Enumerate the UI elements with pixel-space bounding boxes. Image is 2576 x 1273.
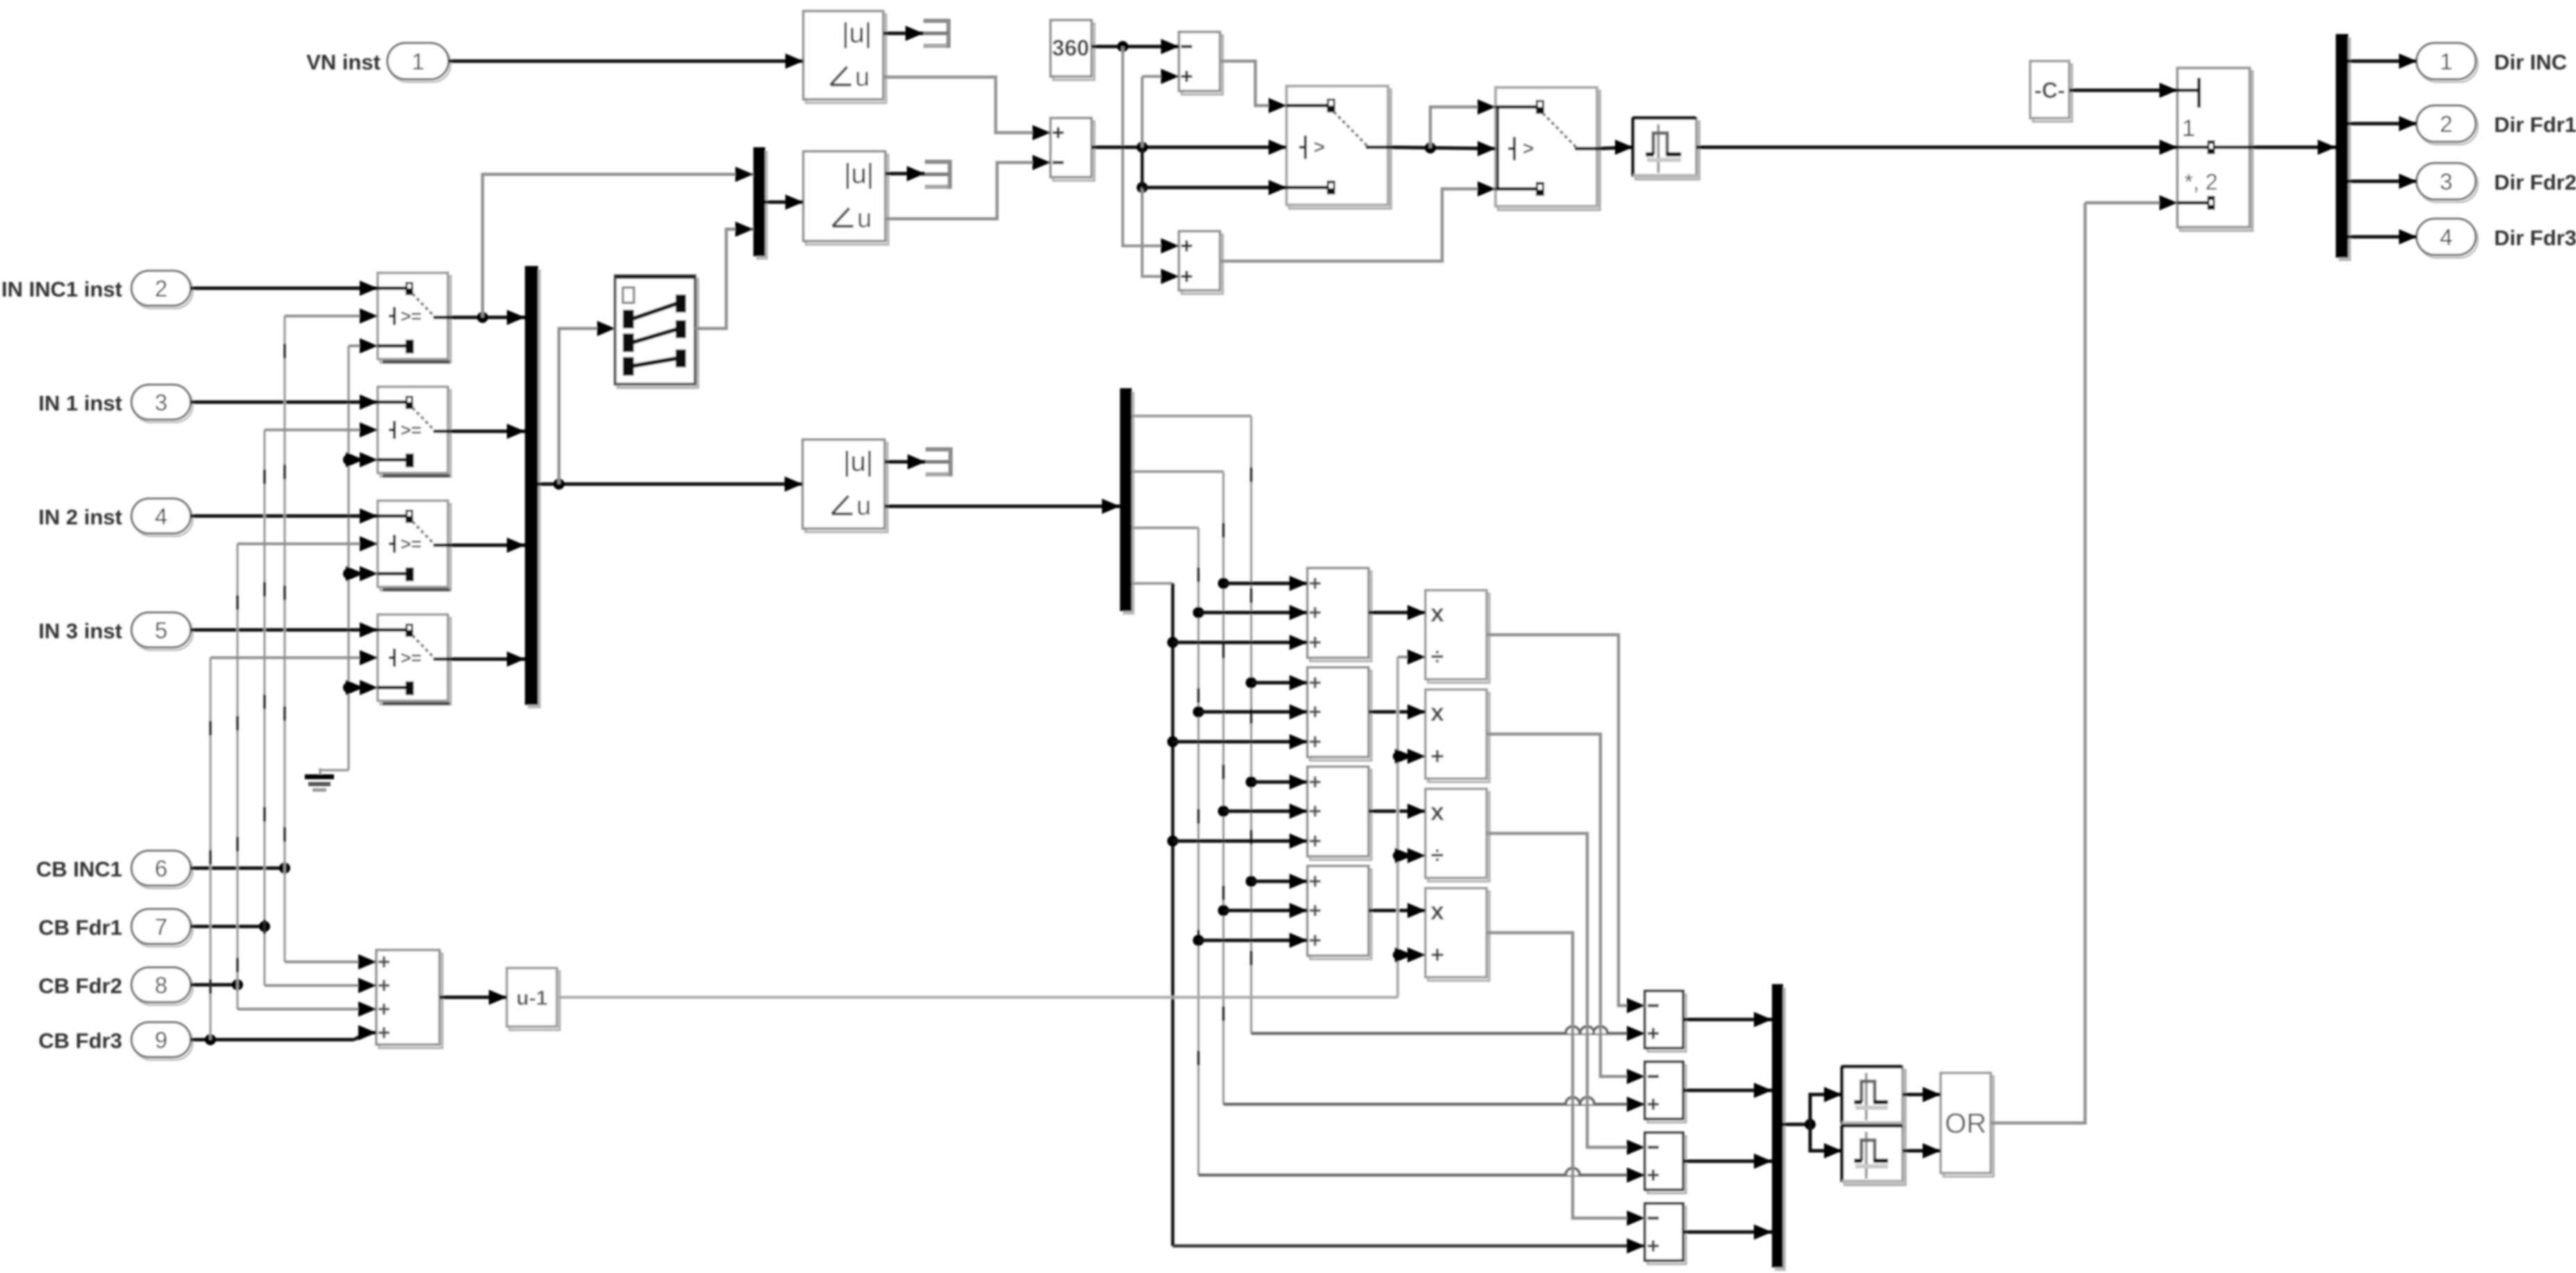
svg-text:>=: >= — [401, 306, 421, 326]
svg-text:Dir INC: Dir INC — [2494, 50, 2567, 74]
svg-text:÷: ÷ — [1431, 842, 1444, 869]
svg-text:1: 1 — [412, 49, 424, 74]
svg-text:x: x — [1430, 698, 1444, 726]
svg-text:360: 360 — [1052, 35, 1089, 60]
svg-text:9: 9 — [155, 1027, 167, 1053]
svg-text:u-1: u-1 — [517, 987, 548, 1010]
svg-text:7: 7 — [155, 914, 167, 940]
svg-text:2: 2 — [2440, 111, 2452, 137]
svg-text:CB Fdr2: CB Fdr2 — [38, 974, 122, 998]
svg-text:x: x — [1430, 797, 1444, 826]
svg-text:4: 4 — [2440, 224, 2452, 250]
svg-text:|u|: |u| — [842, 18, 871, 49]
svg-text:u: u — [855, 63, 869, 92]
svg-text:CB Fdr1: CB Fdr1 — [38, 915, 122, 940]
svg-text:IN INC1 inst: IN INC1 inst — [1, 277, 122, 301]
svg-text:u: u — [856, 492, 871, 521]
svg-text:>: > — [1314, 136, 1325, 158]
svg-text:x: x — [1430, 599, 1444, 627]
svg-text:+: + — [1430, 743, 1444, 769]
svg-text:8: 8 — [155, 972, 167, 998]
svg-text:5: 5 — [155, 617, 167, 643]
svg-text:IN 1 inst: IN 1 inst — [38, 391, 122, 415]
svg-text:>=: >= — [401, 419, 421, 440]
svg-text:Dir Fdr2: Dir Fdr2 — [2494, 170, 2576, 194]
svg-text:>=: >= — [401, 533, 421, 554]
svg-text:>: > — [1523, 138, 1534, 159]
svg-text:|u|: |u| — [844, 158, 873, 189]
svg-text:4: 4 — [155, 504, 167, 529]
svg-text:-C-: -C- — [2034, 78, 2065, 103]
svg-text:CB Fdr3: CB Fdr3 — [38, 1029, 122, 1053]
svg-text:2: 2 — [155, 276, 167, 301]
svg-text:IN 3 inst: IN 3 inst — [38, 619, 122, 643]
svg-text:3: 3 — [2440, 169, 2452, 194]
svg-text:6: 6 — [155, 856, 167, 881]
svg-text:x: x — [1430, 897, 1444, 925]
svg-text:1: 1 — [2440, 49, 2452, 74]
svg-text:VN inst: VN inst — [306, 50, 380, 74]
svg-text:u: u — [857, 204, 871, 233]
svg-text:÷: ÷ — [1431, 644, 1444, 670]
svg-text:OR: OR — [1945, 1108, 1987, 1139]
svg-text:+: + — [1430, 942, 1444, 968]
svg-text:*, 2: *, 2 — [2184, 169, 2218, 194]
svg-text:IN 2 inst: IN 2 inst — [38, 505, 122, 529]
svg-text:CB INC1: CB INC1 — [36, 857, 122, 881]
svg-text:>=: >= — [401, 647, 421, 668]
svg-text:1: 1 — [2182, 115, 2196, 142]
svg-text:3: 3 — [155, 390, 167, 415]
svg-text:Dir Fdr1: Dir Fdr1 — [2494, 113, 2576, 137]
svg-text:Dir Fdr3: Dir Fdr3 — [2494, 226, 2576, 250]
svg-text:|u|: |u| — [843, 447, 873, 477]
